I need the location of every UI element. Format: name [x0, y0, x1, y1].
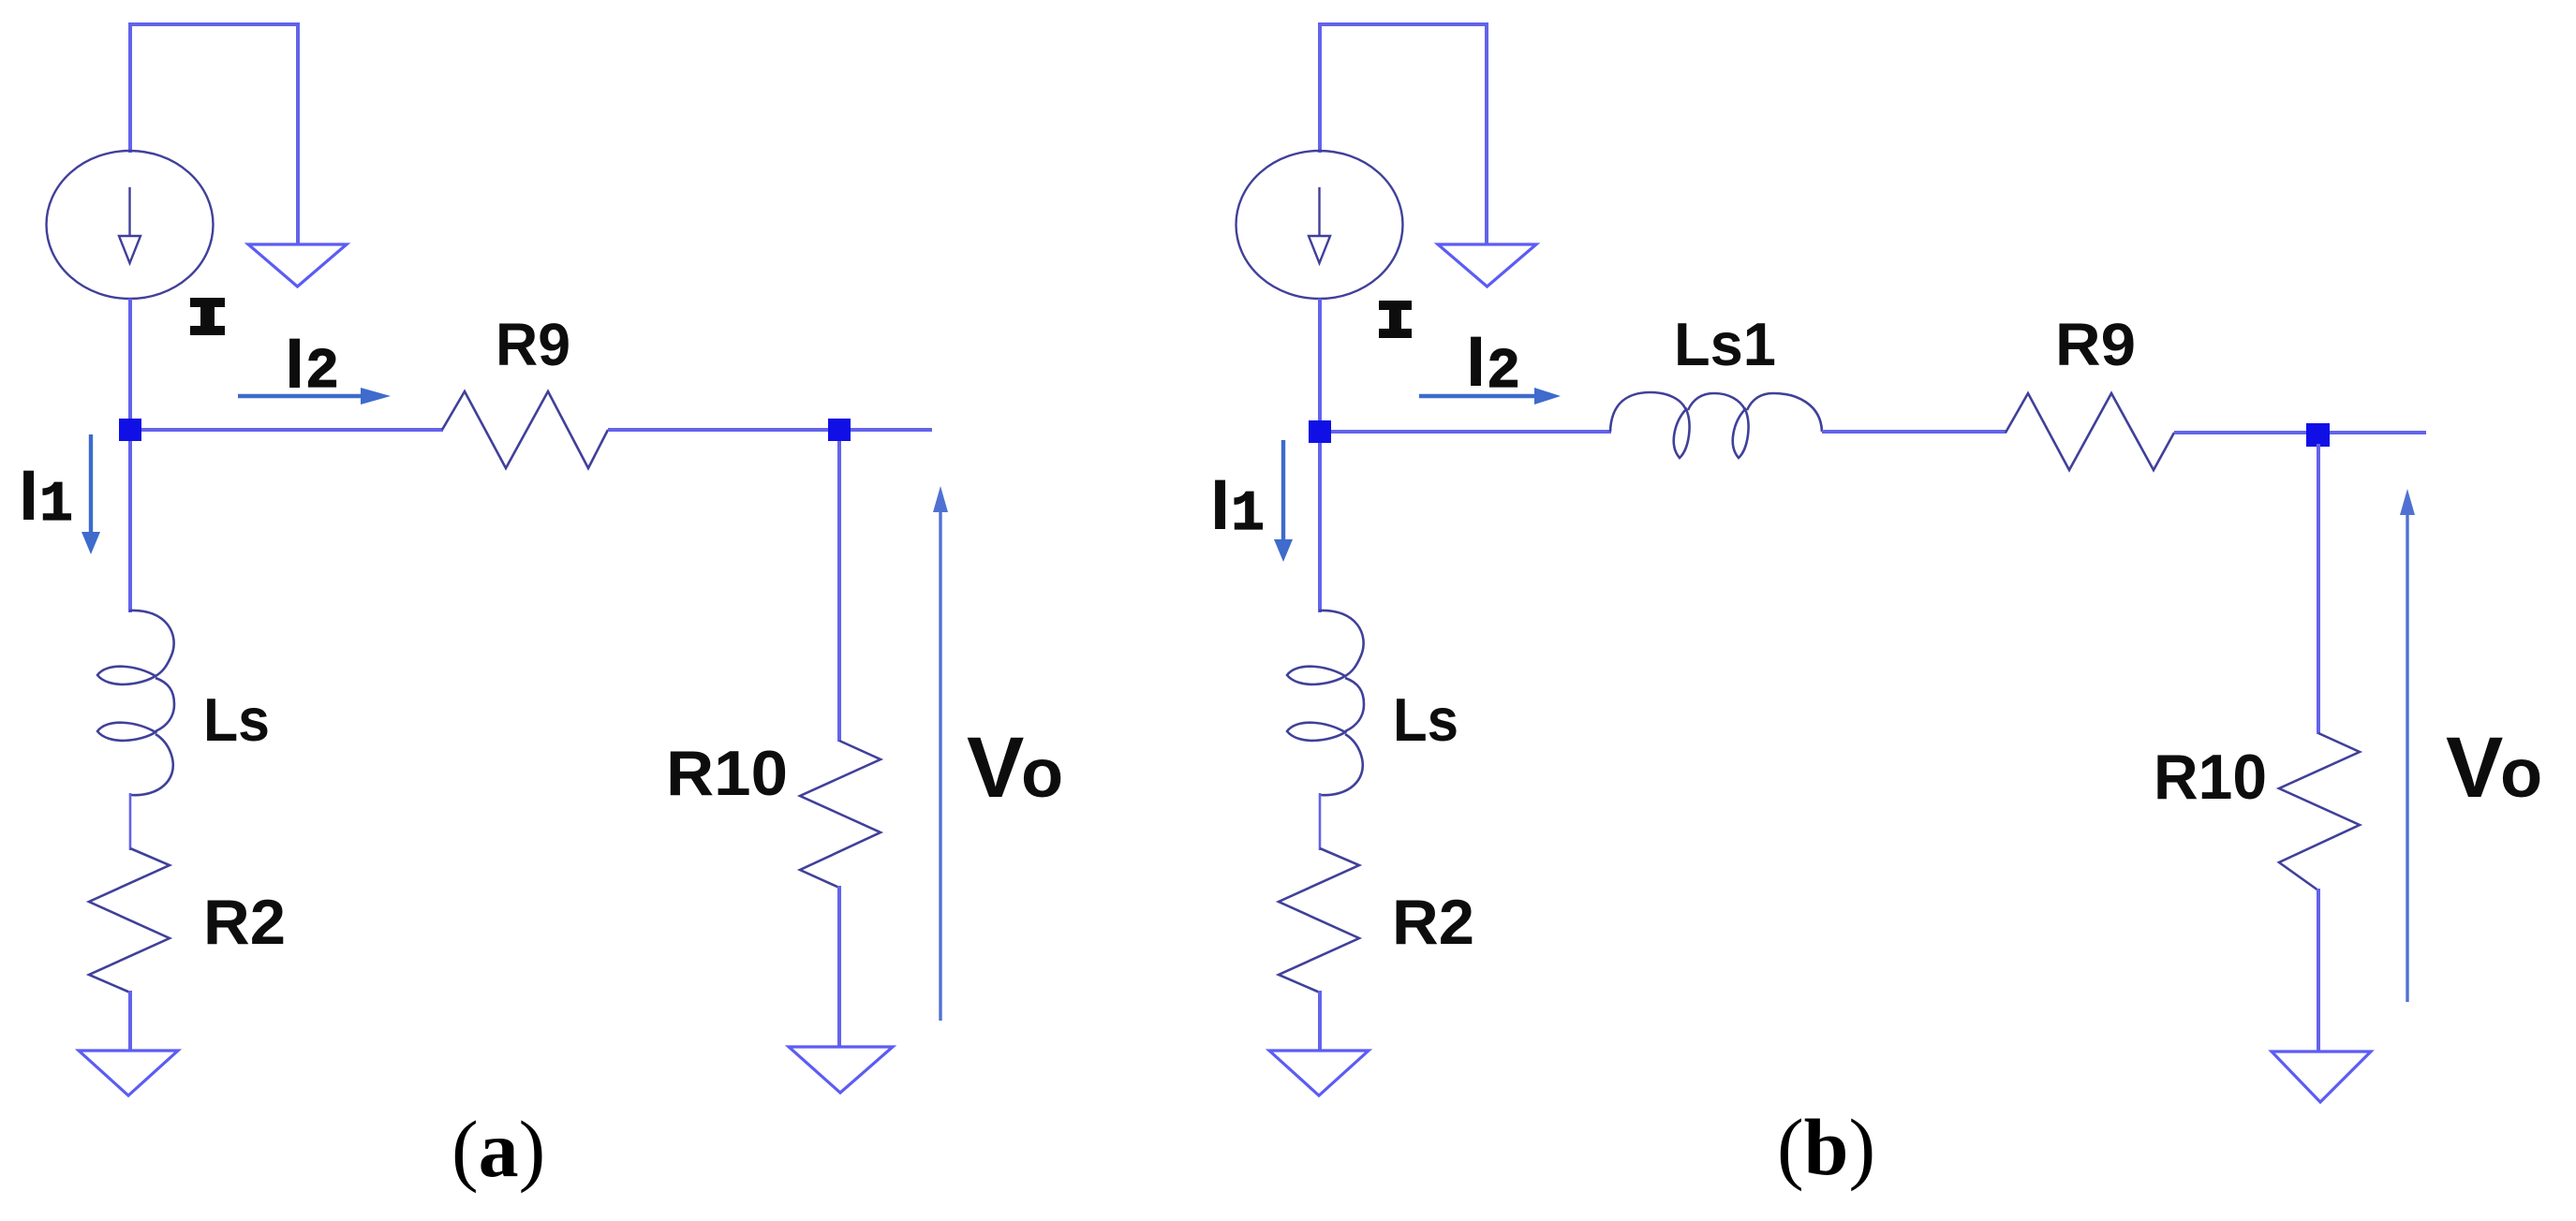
- inductor Ls1 coil (b): [1610, 392, 1822, 432]
- svg-text:V: V: [967, 720, 1024, 816]
- inductor Ls loop1 (b): [1287, 667, 1345, 684]
- wire R2-to-ground (a): [128, 991, 132, 1051]
- svg-text:I: I: [19, 456, 38, 536]
- svg-text:Ls: Ls: [1393, 685, 1458, 754]
- node A1 (a): [119, 419, 141, 441]
- wire R9-to-node2 (b): [2174, 431, 2309, 434]
- svg-text:Ls1: Ls1: [1674, 310, 1776, 378]
- wire node-to-R9 (a): [141, 428, 443, 432]
- svg-text:1: 1: [1231, 483, 1265, 547]
- inductor Ls1 loop2 (b): [1733, 409, 1749, 458]
- svg-text:(a): (a): [452, 1104, 545, 1194]
- ground top (b): [1438, 244, 1536, 287]
- svg-text:I: I: [1210, 465, 1230, 545]
- svg-text:R10: R10: [2154, 742, 2267, 813]
- ground top (a): [248, 244, 347, 287]
- wire top-left vertical (a): [128, 22, 132, 153]
- svg-text:R9: R9: [496, 311, 570, 378]
- inductor Ls loop2 (a): [97, 723, 155, 741]
- svg-text:R10: R10: [666, 738, 788, 809]
- voltage arrow Vo (a): [939, 506, 941, 1021]
- wire R10-to-ground (a): [837, 886, 841, 1047]
- wire source-to-node (a): [128, 299, 132, 421]
- ground bottom-left (b): [1269, 1051, 1369, 1096]
- wire R9-to-node2 (a): [608, 428, 830, 432]
- resistor R9 (a): [442, 391, 608, 468]
- inductor Ls coil (b): [1319, 610, 1364, 795]
- wire top horizontal (a): [128, 22, 300, 26]
- current arrow I1 (a): [89, 434, 93, 536]
- inductor Ls1 loop1 (b): [1674, 409, 1690, 458]
- svg-text:I: I: [1466, 322, 1486, 402]
- wire node-to-inductor (b): [1318, 443, 1322, 612]
- svg-text:(b): (b): [1777, 1102, 1875, 1192]
- inductor Ls loop1 (a): [97, 667, 155, 684]
- node B2 (b): [2306, 423, 2330, 447]
- wire top horizontal (b): [1318, 22, 1488, 26]
- voltage arrow Vo (b): [2406, 510, 2408, 1002]
- current source arrow shaft (a): [128, 187, 130, 236]
- wire node2-to-R10 (b): [2317, 444, 2320, 734]
- current arrow I1 (b): [1281, 440, 1285, 543]
- ground bottom-left (a): [79, 1051, 178, 1096]
- wire node-to-Ls1 (b): [1331, 430, 1611, 434]
- wire top-left vertical (b): [1318, 22, 1322, 153]
- wire node-to-inductor (a): [128, 441, 132, 612]
- current source I (b): [1236, 151, 1403, 299]
- current arrow I2 (b): [1419, 394, 1536, 399]
- resistor R9 (b): [2006, 393, 2174, 470]
- wire R10-to-ground (b): [2317, 889, 2320, 1052]
- node A2 (a): [828, 419, 851, 441]
- resistor R10 (a): [800, 741, 881, 888]
- wire source-to-node (b): [1318, 299, 1322, 423]
- current source I (a): [47, 151, 214, 299]
- inductor Ls loop2 (b): [1287, 723, 1345, 741]
- ground bottom-right (b): [2272, 1052, 2371, 1102]
- label I (a): [190, 298, 225, 335]
- resistor R2 (b): [1279, 848, 1359, 993]
- wire node2 right stub (a): [851, 428, 932, 432]
- svg-text:I: I: [285, 324, 304, 404]
- resistor R2 (a): [89, 848, 170, 993]
- current source arrow head (b): [1309, 236, 1330, 263]
- svg-text:R2: R2: [203, 887, 286, 958]
- wire R2-to-ground (b): [1318, 991, 1322, 1051]
- wire top-right vertical to ground (a): [296, 22, 300, 244]
- wire top-right vertical to ground (b): [1485, 22, 1488, 244]
- inductor Ls coil (a): [129, 610, 174, 795]
- svg-text:1: 1: [39, 474, 73, 537]
- svg-text:R9: R9: [2055, 311, 2136, 378]
- wire node2 right stub (b): [2330, 431, 2426, 434]
- svg-text:o: o: [2500, 734, 2542, 812]
- svg-text:R2: R2: [1392, 887, 1474, 958]
- current arrow I2 (a): [238, 394, 365, 399]
- svg-text:Ls: Ls: [203, 685, 270, 754]
- wire coil-to-R2 (a): [129, 793, 132, 850]
- resistor R10 (b): [2279, 733, 2360, 890]
- svg-text:o: o: [1021, 734, 1063, 812]
- ground bottom-right (a): [789, 1047, 893, 1093]
- current source arrow head (a): [119, 236, 141, 263]
- node B1 (b): [1309, 420, 1331, 443]
- current source arrow shaft (b): [1318, 187, 1320, 236]
- wire node2-to-R10 (a): [837, 441, 841, 742]
- svg-text:V: V: [2446, 720, 2503, 816]
- label I (b): [1379, 301, 1412, 338]
- wire coil-to-R2 (b): [1319, 793, 1322, 850]
- wire Ls1-to-R9 (b): [1822, 430, 2006, 434]
